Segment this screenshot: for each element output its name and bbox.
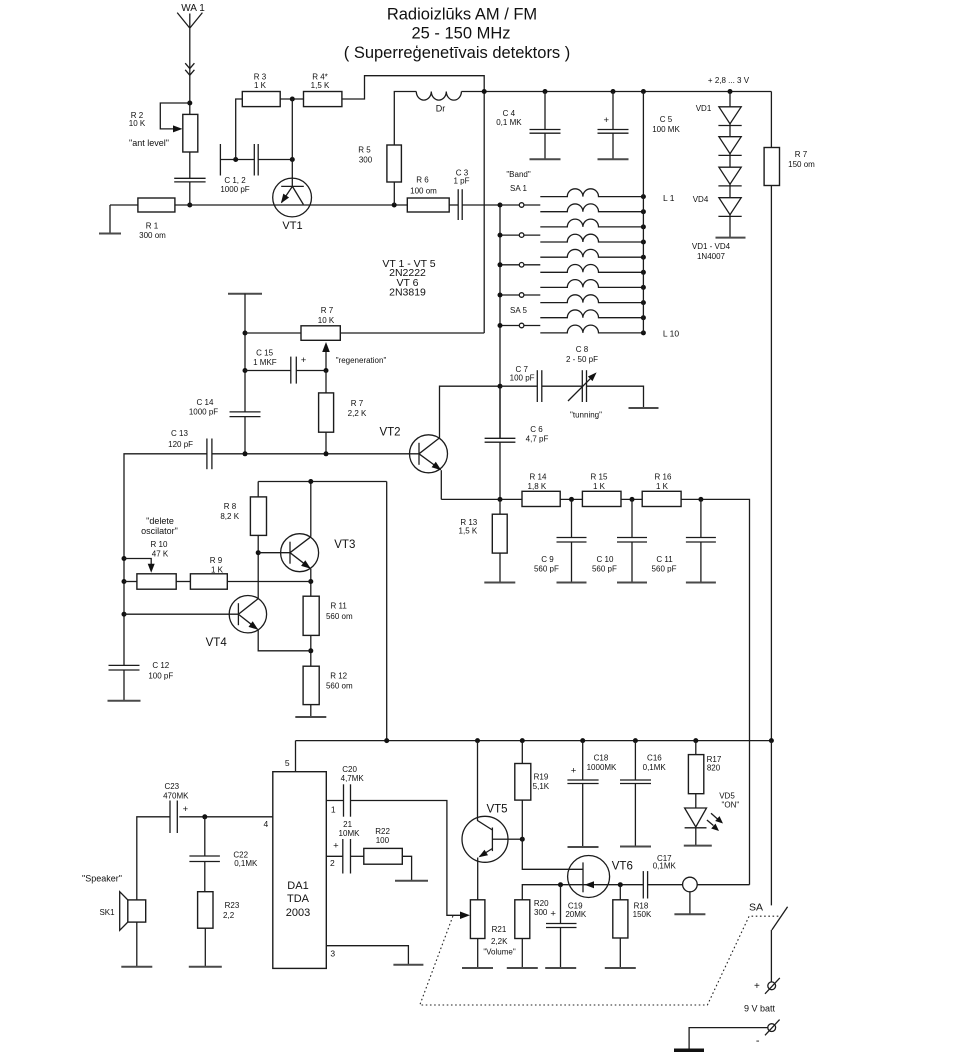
IC DA1 TDA2003 [273,772,327,969]
node gate/C19 [558,882,563,887]
node C14/base [243,451,248,456]
svg-text:"Speaker": "Speaker" [82,874,122,884]
svg-text:25 - 150 MHz: 25 - 150 MHz [411,25,510,43]
svg-text:120 pF: 120 pF [168,440,193,449]
svg-text:0,1MK: 0,1MK [234,859,258,868]
svg-text:R22: R22 [375,827,390,836]
node R3/R4 junction [290,97,295,102]
wire C20 to R21 wiper [351,801,463,916]
svg-text:+: + [571,766,577,777]
speaker SK1 [128,900,146,922]
capacitor C6 [499,386,501,438]
capacitor C16 [634,741,636,780]
switch SA5 contact [500,325,519,327]
svg-text:VT3: VT3 [334,539,355,551]
VD5 light arrows [707,813,718,825]
capacitor C23 [169,801,171,834]
svg-text:VD4: VD4 [693,195,709,204]
svg-text:2,2 K: 2,2 K [348,409,367,418]
svg-text:VT6: VT6 [612,861,633,873]
svg-text:R 15: R 15 [591,473,608,482]
wire R3 left lead [236,99,243,160]
wire C17 to jack [648,884,683,886]
svg-text:VD1 - VD4: VD1 - VD4 [692,242,731,251]
switch SA2 contact [500,234,519,236]
svg-text:R23: R23 [225,901,240,910]
wire R6-C3 [449,204,458,206]
wire R5 bottom [393,182,395,205]
svg-text:1000 pF: 1000 pF [189,408,218,417]
svg-text:R 1: R 1 [146,222,159,231]
wire base vertical [291,99,293,186]
node C10 [630,497,635,502]
svg-text:5: 5 [285,758,290,768]
node rail/C4 [543,89,548,94]
capacitor C22 [204,817,206,856]
svg-text:0,1MK: 0,1MK [643,763,667,772]
svg-text:C20: C20 [342,765,357,774]
svg-text:C 12: C 12 [152,661,169,670]
resistor R8 [250,497,266,536]
resistor R15 [582,491,621,506]
pin 3 lead [326,946,408,965]
wire top rail +2,8V [484,91,771,93]
wire R8 top lead [257,482,259,497]
capacitor C19 [560,885,562,924]
node bus/C3 [498,203,503,208]
wire R15-R16 [621,498,642,500]
node bus/SA4 [498,293,503,298]
capacitor C18 [582,741,584,780]
antenna break chevrons [185,63,194,75]
svg-text:R 5: R 5 [358,146,371,155]
svg-text:21: 21 [343,820,352,829]
resistor R3 [242,92,280,107]
resistor R5 [387,145,402,182]
svg-text:1,8 K: 1,8 K [528,482,547,491]
svg-text:Radioizlūks AM / FM: Radioizlūks AM / FM [387,6,537,24]
svg-text:4,7MK: 4,7MK [341,774,365,783]
pin 1 lead [326,800,343,802]
potentiometer R10 [137,574,176,589]
node R3 tap [233,157,238,162]
svg-text:8,2 K: 8,2 K [220,512,239,521]
svg-text:L 1: L 1 [663,193,675,203]
wire R4 to top rail [342,76,484,333]
resistor R6 [407,198,449,212]
svg-text:2003: 2003 [286,907,310,919]
terminal bar C8 [629,407,659,409]
transistor VT1 [273,178,312,217]
svg-text:10 K: 10 K [318,316,335,325]
VT6 gate arrow [585,881,595,888]
ground R22 [402,856,411,881]
svg-text:+: + [333,841,339,852]
mechanical link R21-SA (dashed) [420,916,780,1005]
node R11/R12/VT4e [308,648,313,653]
svg-text:R 10: R 10 [151,540,168,549]
inductors L1-L10 [540,189,643,197]
resistor R13 [499,499,501,514]
wire VT5 base [508,838,522,840]
svg-text:VT5: VT5 [486,804,507,816]
wire main to VT1/R5 [175,204,407,206]
svg-text:R 14: R 14 [530,473,547,482]
capacitor C8 (variable) [581,370,583,402]
svg-text:1: 1 [331,805,336,815]
svg-text:Dr: Dr [436,104,446,114]
resistor R19 [521,741,523,764]
wire switch bus [499,205,501,438]
wire VT6 drain [522,839,583,869]
ground R12 [310,705,312,717]
switch SA4 contact [500,294,519,296]
svg-text:10MK: 10MK [339,829,361,838]
pin 2 lead [326,855,343,857]
wire R9 right [227,581,310,583]
wire VT3 collector [310,482,312,537]
svg-text:C 11: C 11 [656,555,673,564]
wire R11-R12 [310,635,312,666]
wire Dr to rail corner [461,91,484,93]
resistor R1 [138,198,175,212]
wire R3-R4 [280,98,303,100]
pin 5 lead [295,741,297,772]
terminal battery - [768,1024,776,1032]
capacitor C17 [642,871,644,898]
resistor R16 [642,491,681,506]
svg-text:C23: C23 [164,782,179,791]
node rail/R17 [693,738,698,743]
resistor R9 [190,574,227,589]
transistor VT2 [410,435,448,473]
svg-text:"tunning": "tunning" [570,411,602,420]
capacitor C1 plate [219,144,221,176]
svg-text:+ 2,8 ... 3 V: + 2,8 ... 3 V [708,76,750,85]
svg-text:"ON": "ON" [722,801,740,810]
svg-text:100 MK: 100 MK [652,125,680,134]
wire SA to + terminal [770,930,772,982]
svg-text:oscilator": oscilator" [141,526,178,536]
node VT1 base junction [290,157,295,162]
transistor VT5 [462,816,508,862]
wire VT2 emitter [440,470,442,499]
node rail/C5 [611,89,616,94]
node R7/base [324,451,329,456]
LED VD5 [695,794,697,808]
wire SA from rail [770,741,772,906]
svg-text:R 8: R 8 [224,502,237,511]
node regen/C15 [243,368,248,373]
node VT3 collector/rail [308,479,313,484]
svg-text:20MK: 20MK [565,910,587,919]
capacitor C7 [536,370,538,402]
svg-text:R 13: R 13 [460,518,477,527]
node VT5 base/R19 [520,837,525,842]
svg-text:1 MKF: 1 MKF [253,358,277,367]
transistor VT3 [281,534,319,572]
node regen/R7 10K [243,331,248,336]
switch SA arm [772,907,788,930]
svg-text:300: 300 [534,908,548,917]
capacitor C5 [612,92,614,130]
resistor R11 [303,596,319,635]
svg-text:SA 1: SA 1 [510,184,527,193]
wire VT4 base [124,613,238,615]
svg-text:R19: R19 [534,773,549,782]
svg-text:2,2: 2,2 [223,911,235,920]
resistor R22 [364,848,403,864]
svg-text:1,5 K: 1,5 K [311,81,330,90]
node R8/VT3 base [256,550,261,555]
wire R10 left [124,581,137,583]
svg-text:C18: C18 [594,754,609,763]
node wiper/C15 [324,368,329,373]
svg-text:4,7 pF: 4,7 pF [526,434,549,443]
wire R14-R15 [560,498,582,500]
node C11 [698,497,703,502]
svg-text:-: - [756,1035,760,1047]
svg-text:C 4: C 4 [503,109,516,118]
capacitor C11 [700,499,702,537]
wire VT3 emitter [310,569,312,596]
node source/R18 [618,882,623,887]
transistor VT4 [229,596,266,633]
node R5 junction [392,203,397,208]
svg-text:1 K: 1 K [211,566,224,575]
svg-text:+: + [183,804,189,815]
wire R16 right [681,499,749,884]
node rail/VD1 [728,89,733,94]
svg-text:47 K: 47 K [152,550,169,559]
resistor R7 (2,2 K) [325,371,327,393]
svg-text:+: + [550,909,556,920]
svg-text:5,1K: 5,1K [533,782,550,791]
svg-text:2,2K: 2,2K [491,937,508,946]
svg-text:2N3819: 2N3819 [389,287,426,299]
svg-text:VT4: VT4 [206,637,228,649]
svg-text:R21: R21 [492,925,507,934]
terminal bar VD4 bottom [716,237,746,239]
svg-text:560 pF: 560 pF [652,565,677,574]
svg-text:VD1: VD1 [696,104,712,113]
svg-text:C 7: C 7 [515,365,528,374]
capacitor C15 [245,370,291,372]
svg-text:C 10: C 10 [597,555,614,564]
svg-text:C 6: C 6 [530,425,543,434]
svg-text:470MK: 470MK [163,792,189,801]
wire VT2 base [212,453,419,455]
node C13 line/wiper [122,556,127,561]
wire R7 10K left [245,332,301,334]
svg-text:R 7: R 7 [795,150,808,159]
svg-text:SA 5: SA 5 [510,306,527,315]
svg-text:C 9: C 9 [541,555,554,564]
resistor R4 [304,92,342,107]
ground left of R1 [109,205,111,234]
ground VD5 [684,845,712,847]
wire VT6 gate/source [522,885,643,900]
svg-text:VT1: VT1 [282,220,302,232]
resistor R17 [695,741,697,755]
svg-text:100: 100 [376,836,390,845]
wire VT5 collector [477,741,479,818]
capacitor C3 [457,189,459,220]
wire vert to bottom rail [386,482,388,741]
svg-text:560 om: 560 om [326,612,353,621]
node rail/R4 [482,89,487,94]
node row/bus [498,497,503,502]
svg-text:R 6: R 6 [416,176,429,185]
wire R8 to VT4 [257,535,259,598]
wire C7-C8 [542,385,583,387]
svg-text:1,5 K: 1,5 K [459,527,478,536]
capacitor below R2 [174,177,205,179]
wire R2 wiper loop [160,103,190,129]
svg-text:TDA: TDA [287,893,310,905]
node C13 line/R10 [122,579,127,584]
capacitor C2 [253,144,255,176]
wire +V right vertical [770,92,772,148]
wire R2 to cap [189,152,191,178]
node antenna/R2 junction [187,101,192,106]
svg-text:L 10: L 10 [663,328,680,338]
ground C12 [108,700,141,702]
svg-text:R20: R20 [534,899,549,908]
node rail/C18 [580,738,585,743]
capacitor C4 [544,92,546,130]
R2 wiper arrow [173,125,183,132]
capacitor C14 [230,411,261,413]
node C9 [569,497,574,502]
wire R8 top rail [258,481,387,483]
svg-text:100 pF: 100 pF [148,672,173,681]
svg-text:0,1 MK: 0,1 MK [496,118,522,127]
terminal bar top [228,293,262,295]
node R1/R2 junction [187,203,192,208]
wire C13 left down [124,454,207,666]
R7 10K wiper arrow [325,351,327,371]
svg-text:( Superreģenetīvais detektors: ( Superreģenetīvais detektors ) [344,44,571,62]
wire VT2 collector [440,386,501,438]
wire C21-R22 [351,855,364,857]
capacitor C12 [109,664,140,666]
node rail/R19 [520,738,525,743]
svg-text:100 pF: 100 pF [510,374,535,383]
svg-text:R 16: R 16 [655,473,672,482]
svg-text:"Band": "Band" [506,170,531,179]
svg-text:560 om: 560 om [326,682,353,691]
svg-text:C 13: C 13 [171,429,188,438]
wire cap to main [189,182,191,205]
wire R5 top [394,92,416,146]
svg-text:C 14: C 14 [197,398,214,407]
wire - terminal to ground [689,1028,768,1051]
svg-text:"delete: "delete [146,516,174,526]
svg-text:C22: C22 [233,850,248,859]
diodes VD1-VD4 [729,92,731,238]
wire R7 10K right [340,332,484,334]
resistor R2 [183,114,198,152]
node bus/SA2 [498,233,503,238]
wire C3 to switch bus [462,204,500,206]
svg-text:1 pF: 1 pF [453,177,469,186]
capacitor C10 [631,499,633,537]
terminal battery + [768,982,776,990]
node pin4/C22 [202,814,207,819]
svg-text:R 7: R 7 [321,306,334,315]
wire C23 to speaker [137,817,170,900]
svg-text:100 om: 100 om [410,187,437,196]
svg-text:1000MK: 1000MK [587,763,617,772]
svg-text:R 12: R 12 [330,672,347,681]
svg-text:2: 2 [330,858,335,868]
node rail/+V [769,738,774,743]
svg-text:C 1, 2: C 1, 2 [224,176,246,185]
capacitor C13 [206,439,208,470]
potentiometer R21 (volume) [470,900,485,939]
resistor R7 (150 om) [764,148,779,186]
capacitor C20 [343,784,345,816]
svg-text:820: 820 [707,764,721,773]
svg-text:R 9: R 9 [210,556,223,565]
output jack [683,877,698,892]
capacitor C21 [342,839,344,874]
svg-text:DA1: DA1 [287,880,308,892]
svg-text:1 K: 1 K [656,482,669,491]
svg-text:1 K: 1 K [254,81,267,90]
node rail/VT3 line [384,738,389,743]
wire C1 to C2 [220,159,254,161]
svg-text:+: + [604,115,610,126]
transistor VT6 (JFET) [568,856,610,898]
switch SA1 contact [500,204,519,206]
svg-text:R 11: R 11 [331,602,348,611]
node bus/C7 row [498,384,503,389]
ground pin3 [393,964,423,966]
resistor R23 [198,892,213,929]
svg-text:WA 1: WA 1 [181,3,205,14]
potentiometer R7 (10 K) [301,326,340,341]
resistor R18 [619,885,621,900]
wire jack to detector line [697,884,749,886]
svg-text:4: 4 [264,819,269,829]
wire C2 to base [258,159,292,161]
resistor R14 [522,491,560,506]
ground R23 [204,928,206,967]
svg-text:"regeneration": "regeneration" [336,356,387,365]
svg-text:1 K: 1 K [593,482,606,491]
wire main left [110,204,138,206]
ground SK1 [136,922,138,967]
ground battery [674,1049,704,1052]
svg-text:R 7: R 7 [351,399,364,408]
node C13 line/VT4 base [122,612,127,617]
svg-text:+: + [754,981,760,992]
svg-text:10 K: 10 K [129,119,146,128]
inductor Dr [416,92,461,101]
capacitor C9 [571,499,573,537]
wire VT4 emitter [258,630,311,651]
svg-text:150 om: 150 om [788,160,815,169]
svg-text:300: 300 [359,156,373,165]
wire L bus [642,92,644,334]
svg-text:VD5: VD5 [719,792,735,801]
svg-text:300 om: 300 om [139,231,166,240]
svg-text:C 15: C 15 [256,349,273,358]
pin 4 lead [179,816,272,818]
svg-text:C 8: C 8 [576,345,589,354]
